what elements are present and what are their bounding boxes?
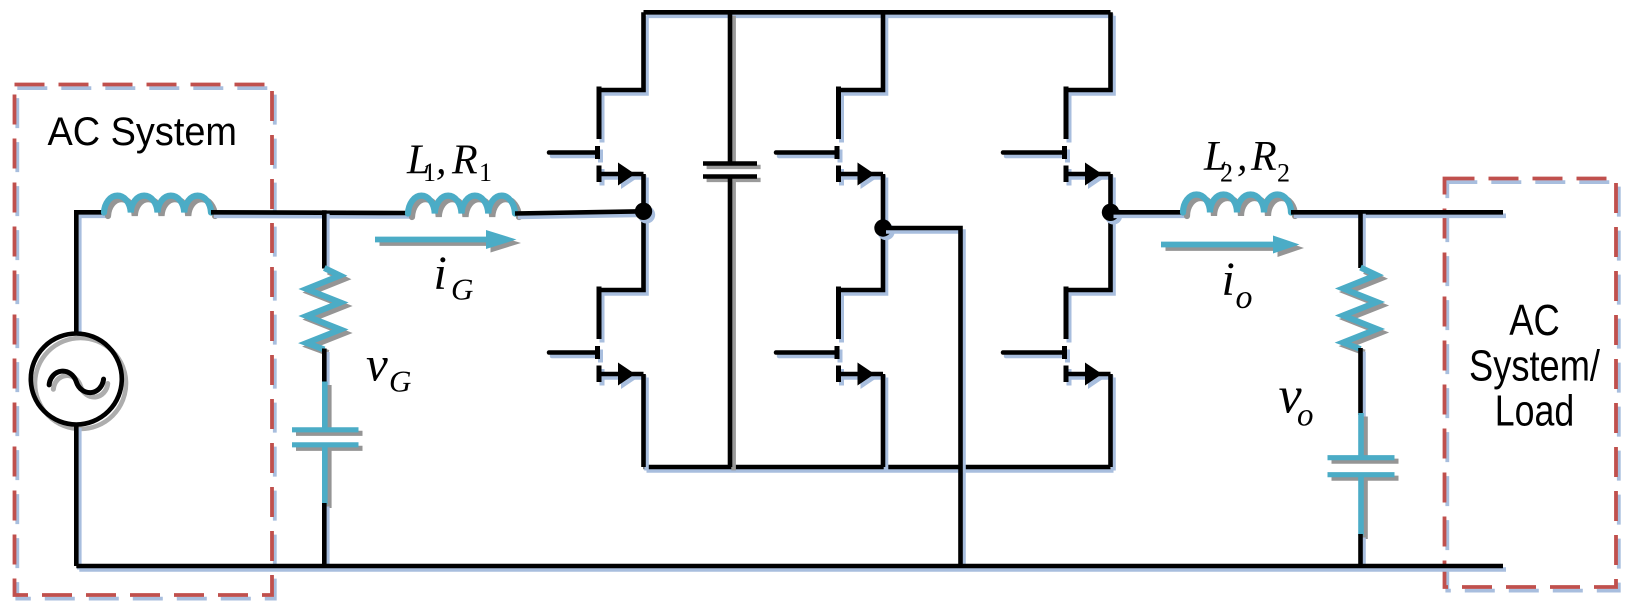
inductor: grid source impedance: [104, 196, 215, 216]
resistor: grid filter damping: [307, 268, 345, 353]
svg-text:Load: Load: [1495, 388, 1575, 436]
label: io (output current): [1222, 253, 1253, 316]
node: leg 3 AC terminal (junction dot): [1102, 204, 1122, 225]
svg-text:i: i: [434, 247, 447, 300]
svg-text:o: o: [1236, 279, 1253, 316]
svg-text:G: G: [451, 272, 473, 307]
svg-text:,: ,: [436, 138, 447, 184]
wire: leg 3 node to L2: [1111, 212, 1187, 216]
label: AC System / Load: [1469, 297, 1601, 435]
wire: output filter resistor to capacitor: [1361, 348, 1364, 419]
label: iG (grid current): [434, 247, 474, 307]
svg-text:v: v: [366, 337, 388, 392]
svg-text:AC System: AC System: [48, 110, 238, 154]
wire: AC source top lead and corner to grid inductor: [76, 212, 107, 337]
svg-text:2: 2: [1277, 159, 1290, 188]
wire: output filter branch top lead: [1361, 210, 1364, 271]
wire: grid filter branch bottom lead: [324, 503, 327, 570]
svg-text:1: 1: [423, 158, 436, 187]
AC System / Load boundary box (dashed): [1445, 179, 1619, 591]
label: L1, R1: [406, 138, 492, 188]
wire: grid filter resistor to capacitor: [324, 349, 327, 388]
wire: grid filter branch top lead: [324, 210, 327, 272]
label: vG (grid filter voltage): [366, 337, 411, 399]
MOSFET: leg 2 upper switch: [776, 12, 886, 231]
wire: leg 2 AC terminal to return rail: [883, 228, 964, 570]
label: L2, R2: [1203, 134, 1290, 188]
svg-text:i: i: [1222, 253, 1235, 306]
wire: AC source bottom lead: [76, 425, 79, 570]
inductor L1,R1 (converter input filter): [408, 196, 519, 217]
MOSFET: leg 3 upper switch: [1003, 12, 1114, 216]
wire: common return (bottom rail): [76, 566, 1506, 570]
capacitor: output filter (Cf2): [1328, 413, 1399, 539]
MOSFET: leg 3 lower switch: [1003, 212, 1114, 470]
label: vo (output voltage): [1279, 368, 1314, 434]
current arrow iG: [375, 230, 521, 253]
svg-text:AC: AC: [1509, 297, 1560, 345]
MOSFET: leg 1 lower switch: [549, 211, 647, 470]
capacitor: grid filter (Cf1): [292, 382, 363, 509]
svg-text:o: o: [1297, 398, 1314, 434]
wire: output filter branch bottom lead: [1361, 534, 1364, 570]
wire: DC bus bottom rail: [644, 467, 1114, 471]
wire: grid inductor to filter node and L1: [211, 212, 411, 216]
svg-text:R: R: [1250, 134, 1277, 180]
svg-text:,: ,: [1237, 134, 1248, 180]
node: leg 2 AC terminal (junction dot): [874, 219, 894, 240]
node: leg 1 AC terminal (junction dot): [635, 203, 655, 224]
svg-text:R: R: [451, 138, 478, 184]
inductor L2,R2 (output filter): [1183, 195, 1295, 217]
label: AC System: [48, 110, 238, 154]
wire: L1 to leg1 output node: [515, 211, 647, 217]
AC source (grid voltage source): [31, 334, 126, 429]
capacitor: DC link: [703, 12, 761, 470]
MOSFET: leg 2 lower switch: [776, 228, 886, 471]
svg-text:System/: System/: [1469, 342, 1601, 390]
svg-text:1: 1: [479, 158, 492, 187]
current arrow io: [1161, 236, 1304, 258]
wire: DC bus top rail: [644, 12, 1114, 16]
svg-text:G: G: [389, 364, 411, 399]
resistor: output filter damping: [1343, 268, 1381, 353]
MOSFET: leg 1 upper switch: [549, 12, 647, 215]
AC System boundary box (dashed): [15, 85, 275, 599]
svg-text:2: 2: [1220, 159, 1233, 188]
wire: L2 to output node and AC system/load: [1291, 212, 1506, 216]
